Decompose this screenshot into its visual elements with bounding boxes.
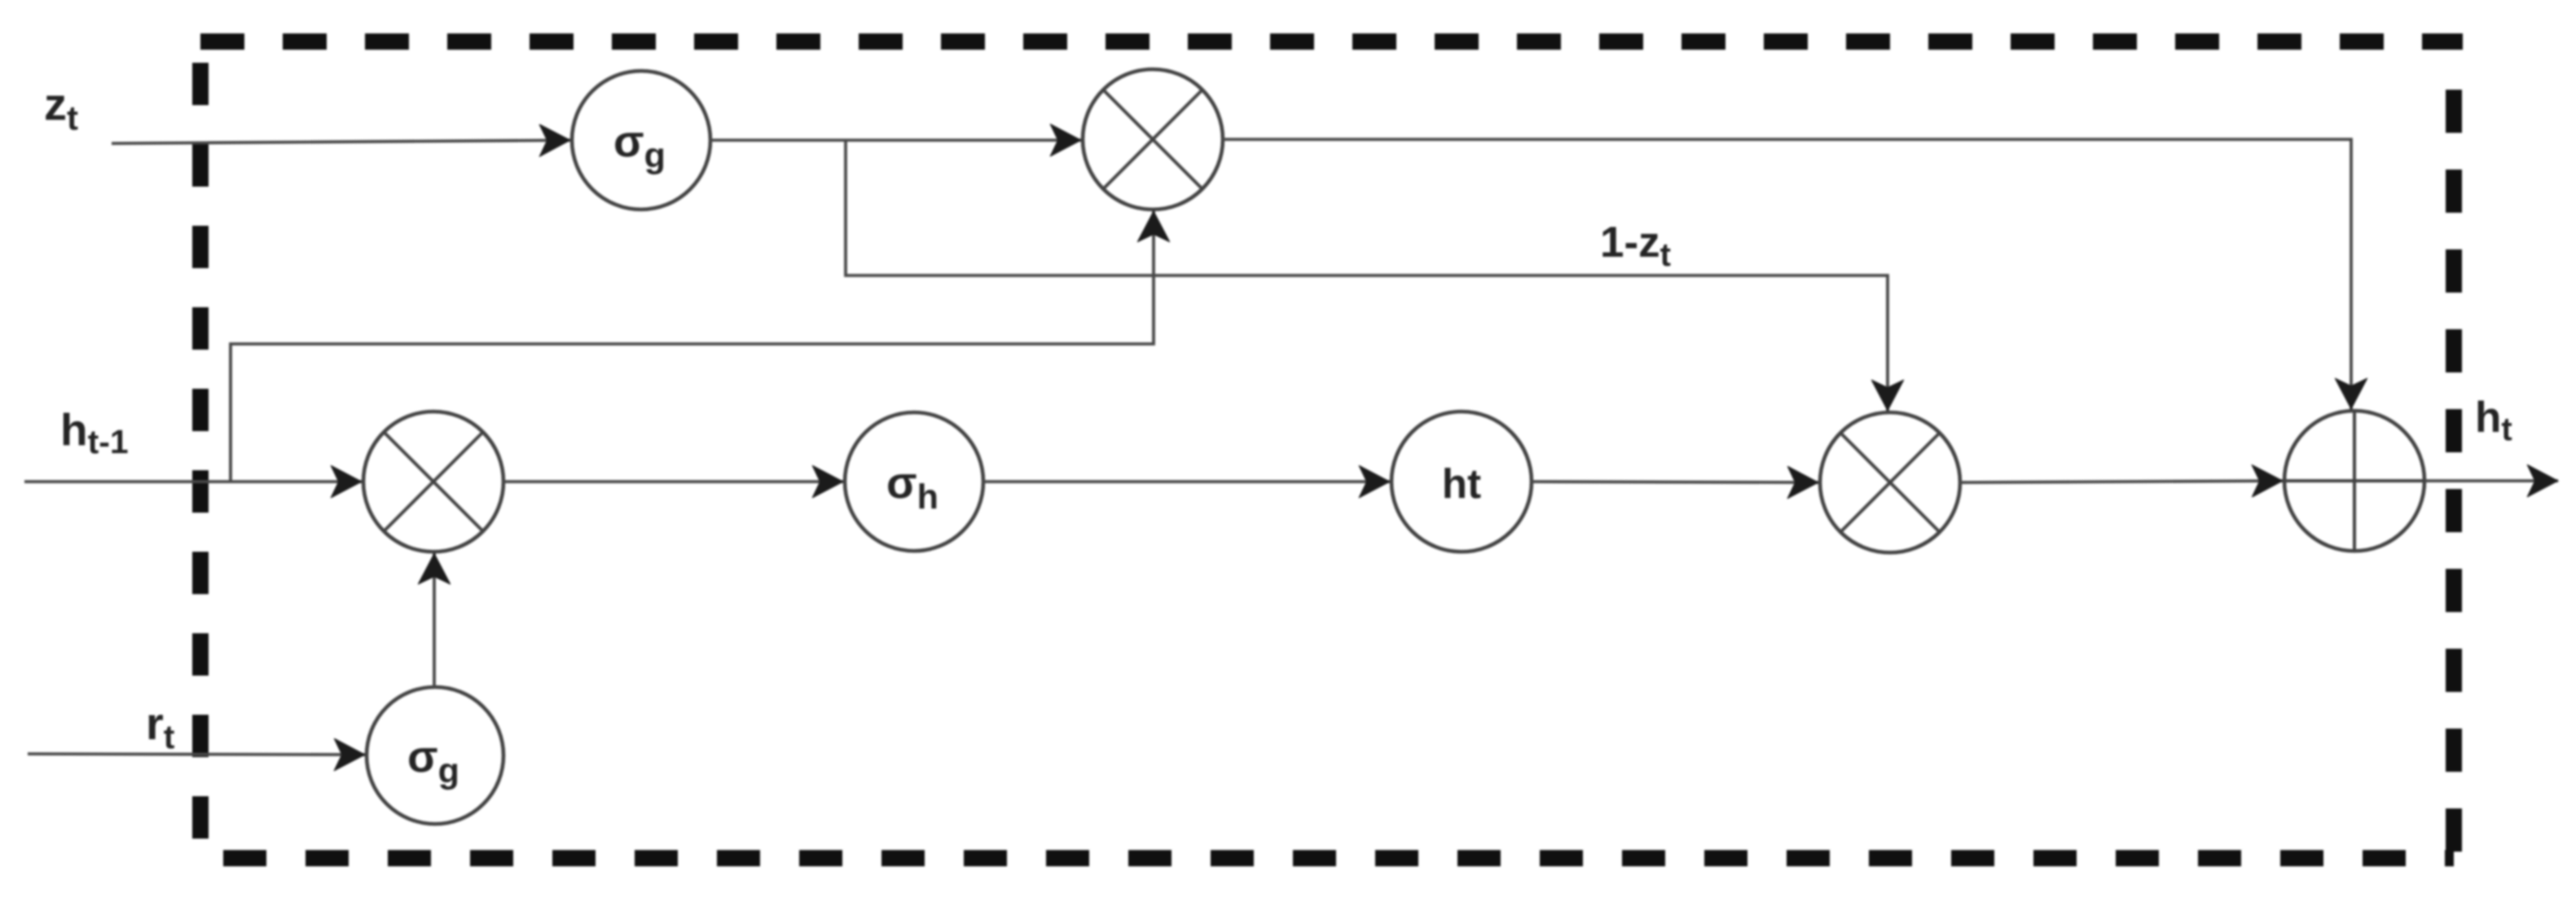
op multiplier X (mid-left, reset) <box>363 412 503 552</box>
wire: adder output h_t leaving the cell <box>2424 479 2558 482</box>
wire: top multiplier output to adder <box>1223 139 2351 409</box>
GRU cell dashed boundary : bottom border <box>223 850 2454 866</box>
wire: r_t input into sigma_g (reset gate) <box>28 754 365 755</box>
wire: branch down from z_t path, 1-z_t elbow to mid-right multiplier <box>846 140 1888 411</box>
wire: mid-left multiplier to sigma_h <box>503 480 843 483</box>
op multiplier X (mid-right) <box>1820 412 1960 553</box>
wire: h_t-1 input to mid-left multiplier <box>24 480 362 483</box>
op multiplier X (top) <box>1083 69 1223 209</box>
op adder + circle <box>2284 411 2424 551</box>
GRU cell dashed boundary : left border <box>192 63 209 841</box>
op sigma_g (reset gate) circle bottom <box>367 687 503 824</box>
wire: sigma_g (reset) up to mid-left multiplier <box>433 553 436 687</box>
svg-text:ht: ht <box>2475 394 2512 447</box>
svg-text:ht: ht <box>1442 460 1481 507</box>
wire: sigma_g to multiplier (top) <box>710 139 1081 142</box>
node ht (candidate state) circle <box>1391 412 1532 552</box>
wire: z_t input into sigma_g (update gate) <box>112 140 570 143</box>
op sigma_h (candidate activation) circle <box>845 412 983 551</box>
wire: mid-right multiplier to adder <box>1960 481 2283 482</box>
svg-text:rt: rt <box>146 698 175 755</box>
op sigma_g (update gate) circle U-top <box>572 71 710 209</box>
svg-text:zt: zt <box>44 78 78 137</box>
wire: h_t-1 branch up to top multiplier <box>231 211 1154 482</box>
GRU cell dashed boundary : top border <box>200 33 2463 50</box>
wire: ht to mid-right multiplier <box>1532 482 1818 482</box>
wire: sigma_h to ht node <box>983 480 1390 483</box>
GRU cell dashed boundary : right border <box>2446 90 2462 865</box>
svg-text:1-zt: 1-zt <box>1600 218 1671 273</box>
svg-text:ht-1: ht-1 <box>60 404 129 460</box>
